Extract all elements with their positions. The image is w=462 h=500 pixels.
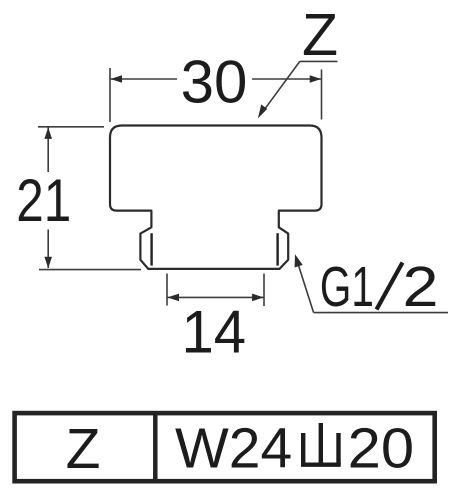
dimension 30 line right segment	[252, 78, 321, 80]
svg-text:W24: W24	[175, 417, 292, 481]
dimension 30 arrow left	[111, 75, 123, 83]
dimension 30 line left segment	[111, 78, 178, 80]
dimension 30 extension line right	[321, 70, 323, 120]
label Z leader arrow	[258, 105, 267, 119]
label G1/2 underline	[314, 312, 448, 314]
label Z leader line	[262, 61, 300, 112]
svg-text:G1: G1	[320, 255, 374, 319]
dimension 14 arrow right	[252, 294, 264, 302]
thread root line right	[276, 233, 278, 265]
svg-text:2: 2	[403, 255, 439, 319]
svg-text:Z: Z	[66, 417, 101, 481]
table divider	[153, 413, 158, 481]
dimension 14 line	[168, 296, 264, 298]
dimension 21 arrow top	[44, 127, 52, 138]
svg-text:14: 14	[182, 299, 247, 366]
thread root line left	[150, 233, 152, 265]
dimension 14 arrow left	[168, 294, 180, 302]
label G1/2 leader arrow	[295, 254, 303, 267]
dimension 30 extension line left	[109, 68, 111, 122]
table cell yama glyph	[301, 423, 341, 465]
label Z underline	[300, 60, 338, 62]
table outer border	[15, 413, 435, 481]
dimension 21 line upper segment	[47, 127, 49, 172]
svg-text:20: 20	[348, 417, 415, 481]
dimension 21 line lower segment	[47, 230, 49, 269]
svg-text:30: 30	[181, 49, 248, 116]
svg-text:Z: Z	[302, 2, 338, 68]
label G1/2 slash	[377, 263, 403, 310]
dimension 21 extension line bottom	[39, 269, 141, 271]
part outline	[110, 126, 322, 269]
dimension 30 arrow right	[310, 75, 322, 83]
svg-text:21: 21	[16, 167, 71, 234]
dimension 14 extension line left	[166, 274, 168, 306]
dimension 14 extension line right	[263, 274, 265, 307]
dimension 21 arrow bottom	[44, 257, 52, 269]
dimension 21 extension line top	[38, 126, 104, 128]
label G1/2 leader line	[298, 265, 313, 313]
